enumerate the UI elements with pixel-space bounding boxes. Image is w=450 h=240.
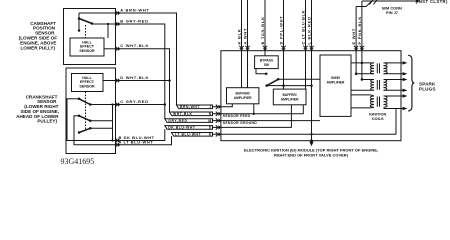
wire crank D internal	[103, 80, 116, 82]
spark plugs label	[419, 81, 436, 91]
wire cam C to module N	[116, 49, 170, 112]
B/M CONN PIN J7 label	[382, 6, 402, 16]
coil3 bottom feed	[351, 106, 374, 109]
wire crank B internal	[67, 99, 116, 141]
terminal crank C	[115, 102, 117, 106]
wire crank A to module K	[116, 136, 172, 145]
camshaft hall effect sensor box	[70, 38, 104, 56]
wire top D	[283, 0, 285, 89]
pennant label DK BLU-WHT D	[165, 126, 213, 130]
svg-text:93G41695: 93G41695	[61, 157, 95, 166]
terminal top B	[263, 46, 267, 48]
crank switch 3	[79, 128, 90, 132]
SM/EI amplifier box	[320, 55, 351, 116]
terminal cam A	[115, 11, 117, 15]
wire hall tap	[107, 24, 109, 38]
svg-text:C GRY-RED: C GRY-RED	[120, 99, 148, 104]
terminal top A	[245, 46, 249, 48]
svg-text:A WHT: A WHT	[243, 28, 248, 45]
module internal switch	[267, 79, 279, 85]
wire crank A internal	[74, 116, 116, 145]
camshaft switch dashed link	[85, 25, 87, 38]
pennant label BRN-WHT J	[177, 105, 213, 109]
svg-text:SENSOR: SENSOR	[35, 30, 55, 35]
switch contact rail to SM/EI	[278, 78, 320, 80]
wire top P	[361, 1, 363, 51]
pennant label WHT-BLK N	[170, 112, 213, 116]
wire crank D joins N rail	[116, 80, 170, 82]
svg-text:SM/EI: SM/EI	[331, 76, 340, 80]
svg-text:BYPASS: BYPASS	[260, 59, 274, 63]
svg-text:P PNK-BLK: P PNK-BLK	[357, 16, 362, 44]
wire stub N / terminal	[213, 112, 221, 116]
ignition coil 3	[370, 96, 387, 107]
wire E to cluster	[356, 1, 372, 7]
svg-text:C LT BLU-BLK: C LT BLU-BLK	[301, 10, 306, 45]
wire cam B to module M	[116, 24, 165, 119]
svg-text:GRY-RED: GRY-RED	[168, 119, 187, 123]
wire cam A to module J	[116, 13, 177, 105]
coil1 secondary leads + arrows	[384, 63, 404, 74]
wire crank C internal	[90, 104, 115, 106]
svg-text:M: M	[208, 119, 211, 123]
svg-text:SENSOR FEED: SENSOR FEED	[223, 114, 251, 118]
svg-text:DK BLU-WHT: DK BLU-WHT	[168, 126, 196, 130]
wire cam C internal	[104, 48, 116, 50]
svg-text:SENSOR: SENSOR	[79, 84, 95, 88]
electronic ignition module caption	[244, 147, 378, 157]
crankshaft sensor label	[16, 94, 59, 123]
buffer1 right leg	[253, 104, 255, 114]
pennant label GRY-RED M	[165, 119, 213, 123]
wire stub K / terminal	[213, 132, 221, 136]
row D inside	[221, 105, 292, 128]
camshaft position sensor label	[19, 21, 57, 51]
svg-text:SENSOR: SENSOR	[79, 49, 95, 53]
row J inside	[221, 104, 232, 107]
wire E inside to coil1 bottom	[356, 51, 374, 74]
svg-text:LOWER PULLY): LOWER PULLY)	[20, 45, 55, 50]
switch pivot rail	[267, 85, 312, 87]
coil2 secondary leads + arrows	[384, 80, 404, 91]
wire top E	[355, 7, 357, 51]
wire contact 3	[90, 127, 112, 129]
EI module box	[221, 51, 401, 141]
svg-text:(INST CLSTR): (INST CLSTR)	[416, 0, 448, 4]
wire top C	[305, 0, 307, 89]
terminal crank D	[115, 78, 117, 82]
coil1 top feed	[351, 62, 374, 64]
terminal crank A	[115, 143, 117, 147]
svg-text:A BRN-WHT: A BRN-WHT	[120, 7, 149, 12]
ignition coil 1	[370, 63, 387, 74]
buffer amplifier 1	[227, 88, 259, 104]
svg-text:D WHT-BLK: D WHT-BLK	[120, 75, 149, 80]
wire K return to coil3	[395, 109, 397, 135]
svg-text:PIN J7: PIN J7	[386, 10, 398, 15]
svg-text:E WHT: E WHT	[351, 28, 356, 45]
wire contact chain	[112, 105, 114, 141]
wire cam B internal	[92, 23, 116, 25]
terminal cam C	[115, 47, 117, 51]
terminal top D	[281, 46, 285, 48]
terminal top P	[360, 46, 364, 48]
camshaft switch	[78, 13, 80, 31]
bypass switch box	[255, 56, 279, 69]
svg-text:AMPLIFIER: AMPLIFIER	[281, 98, 299, 102]
svg-text:PLUGS: PLUGS	[419, 86, 436, 91]
terminal top E	[354, 46, 358, 48]
terminal cam B	[115, 22, 117, 26]
svg-text:B TAN-BLK: B TAN-BLK	[260, 16, 265, 44]
wire crank C joins M rail	[116, 104, 165, 106]
svg-text:B GRY-RED: B GRY-RED	[120, 18, 148, 23]
wire P inside to coil2 top	[362, 51, 374, 80]
wire crank B to module D	[116, 129, 165, 140]
wire stub D / terminal	[213, 125, 221, 129]
svg-text:D PPL-WHT: D PPL-WHT	[279, 16, 284, 45]
row N inside	[221, 105, 303, 114]
wire cam A internal	[79, 12, 116, 14]
ignition coil 2	[371, 80, 387, 91]
svg-text:K BLK: K BLK	[237, 29, 242, 45]
crankshaft sensor outer box	[66, 68, 116, 154]
svg-text:L BLK-RED: L BLK-RED	[307, 16, 312, 44]
bypass to switch contact	[256, 69, 266, 74]
terminal top C	[303, 46, 307, 48]
crank switch 1	[79, 99, 90, 105]
ignition coils label	[369, 111, 386, 121]
wire stub M / terminal	[213, 118, 221, 122]
svg-text:SENSOR GROUND: SENSOR GROUND	[223, 121, 257, 125]
svg-text:WHT-BLK: WHT-BLK	[173, 112, 192, 116]
coil3 top feed	[351, 95, 374, 96]
ground arrow below module	[309, 142, 313, 147]
coil2 bottom feed	[351, 89, 374, 91]
svg-text:BUFFER/: BUFFER/	[236, 92, 250, 96]
crank switch 2	[79, 116, 90, 121]
crankshaft hall effect sensor box	[72, 74, 104, 92]
terminal crank B	[115, 138, 117, 142]
wire top L	[311, 0, 313, 141]
svg-text:J: J	[209, 105, 211, 109]
row K inside	[221, 133, 396, 135]
wire stub J / terminal	[213, 105, 221, 109]
wire top A	[247, 0, 249, 88]
connector slashes	[370, 0, 378, 5]
svg-text:COILS: COILS	[372, 116, 384, 121]
svg-text:AMPLIFIER: AMPLIFIER	[234, 96, 252, 100]
terminal top K	[239, 46, 243, 48]
svg-text:LT BLU-WHT: LT BLU-WHT	[175, 133, 202, 137]
svg-text:SW: SW	[264, 63, 270, 67]
wire top B	[264, 0, 266, 56]
camshaft sensor outer box	[64, 9, 116, 65]
coil3 secondary leads + arrows	[384, 96, 404, 109]
spark plugs brace	[408, 55, 414, 111]
wire contact 2	[90, 120, 112, 122]
svg-text:AMPLIFIER: AMPLIFIER	[327, 80, 345, 84]
row M inside	[221, 120, 320, 122]
terminal top L	[309, 46, 313, 48]
svg-text:RIGHT END OF FRONT VALVE COVER: RIGHT END OF FRONT VALVE COVER)	[274, 152, 349, 157]
svg-text:PULLEY): PULLEY)	[37, 119, 57, 124]
wire top K	[241, 0, 243, 88]
crank switch dashed link	[85, 92, 87, 131]
svg-text:BRN-WHT: BRN-WHT	[180, 105, 200, 109]
svg-text:C WHT-BLK: C WHT-BLK	[120, 43, 149, 48]
pennant label LT BLU-WHT K	[172, 133, 213, 137]
arrow to inst clstr	[416, 0, 421, 3]
svg-text:BUFFER/: BUFFER/	[282, 93, 296, 97]
buffer amplifier 2	[273, 89, 306, 105]
wire P to cluster	[362, 0, 416, 2]
